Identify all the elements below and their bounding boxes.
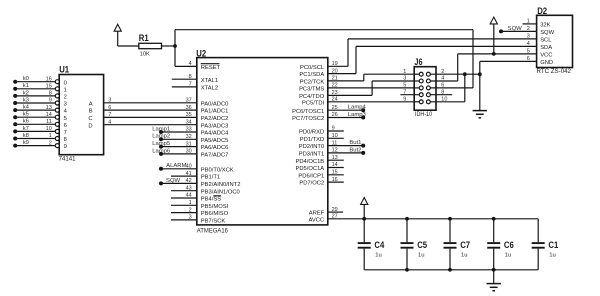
svg-text:PA5/ADC5: PA5/ADC5: [201, 138, 229, 144]
svg-text:21: 21: [332, 76, 338, 82]
svg-text:PB4/SS: PB4/SS: [201, 197, 221, 203]
svg-text:9: 9: [332, 126, 335, 132]
svg-text:31: 31: [186, 141, 192, 147]
svg-text:AREF: AREF: [309, 211, 325, 217]
svg-text:PB2/AIN0/INT2: PB2/AIN0/INT2: [201, 182, 241, 188]
svg-text:PA3/ADC3: PA3/ADC3: [201, 123, 229, 129]
svg-text:PA6/ADC6: PA6/ADC6: [201, 145, 229, 151]
svg-text:AVCC: AVCC: [309, 217, 325, 223]
svg-text:5: 5: [403, 83, 406, 89]
svg-text:14: 14: [46, 112, 52, 118]
svg-text:20: 20: [332, 68, 338, 74]
svg-text:Lamp1: Lamp1: [152, 126, 170, 132]
svg-text:PD2/INT0: PD2/INT0: [299, 144, 324, 150]
svg-text:43: 43: [186, 185, 192, 191]
svg-text:XTAL1: XTAL1: [201, 78, 218, 84]
svg-text:5: 5: [527, 48, 530, 54]
svg-text:ALARM: ALARM: [166, 163, 186, 169]
svg-text:D: D: [88, 123, 92, 129]
svg-text:35: 35: [186, 112, 192, 118]
svg-text:23: 23: [332, 90, 338, 96]
svg-text:12: 12: [332, 148, 338, 154]
svg-text:6: 6: [441, 83, 444, 89]
svg-text:PB1/T1: PB1/T1: [201, 175, 220, 181]
svg-text:4: 4: [108, 119, 111, 125]
svg-text:4: 4: [441, 76, 444, 82]
svg-text:A: A: [89, 101, 93, 107]
svg-text:10K: 10K: [140, 51, 150, 57]
svg-text:2: 2: [189, 207, 192, 213]
svg-text:C1: C1: [548, 239, 558, 250]
svg-text:13: 13: [46, 105, 52, 111]
svg-text:PC6/TOSC1: PC6/TOSC1: [292, 109, 324, 115]
svg-text:14: 14: [332, 162, 338, 168]
svg-text:2: 2: [64, 95, 67, 101]
svg-text:44: 44: [186, 193, 192, 199]
svg-text:k7: k7: [23, 126, 29, 132]
svg-text:C6: C6: [504, 239, 514, 250]
svg-text:34: 34: [186, 119, 192, 125]
svg-text:29: 29: [332, 207, 338, 213]
svg-text:1u: 1u: [505, 253, 512, 259]
svg-text:Lamp4: Lamp4: [348, 105, 367, 111]
svg-text:42: 42: [186, 178, 192, 184]
svg-text:B: B: [89, 109, 93, 115]
svg-text:3: 3: [108, 98, 111, 104]
svg-text:22: 22: [332, 83, 338, 89]
svg-text:RESET: RESET: [201, 65, 221, 71]
svg-text:41: 41: [186, 171, 192, 177]
svg-text:C5: C5: [417, 239, 427, 250]
svg-text:SCL: SCL: [540, 38, 552, 44]
svg-text:SQW: SQW: [508, 26, 523, 32]
svg-text:Lamp3: Lamp3: [348, 112, 367, 118]
svg-text:PD3/INT1: PD3/INT1: [299, 152, 324, 158]
svg-text:9: 9: [403, 97, 406, 103]
svg-text:30: 30: [186, 149, 192, 155]
svg-text:GND: GND: [540, 60, 553, 66]
svg-text:5: 5: [64, 116, 67, 122]
svg-text:PD4/OC1B: PD4/OC1B: [296, 159, 325, 165]
svg-text:1u: 1u: [461, 253, 468, 259]
svg-text:10: 10: [441, 97, 447, 103]
svg-text:1: 1: [49, 133, 52, 139]
svg-text:PC5/TDI: PC5/TDI: [302, 100, 325, 106]
svg-text:9: 9: [49, 98, 52, 104]
svg-text:PA0/ADC0: PA0/ADC0: [201, 101, 229, 107]
svg-text:9: 9: [64, 144, 67, 150]
svg-text:k8: k8: [23, 133, 30, 139]
svg-text:2: 2: [49, 140, 52, 146]
svg-text:k1: k1: [23, 83, 29, 89]
svg-text:PD5/OC1A: PD5/OC1A: [296, 166, 325, 172]
svg-text:6: 6: [64, 123, 67, 129]
svg-text:RTC ZS-042: RTC ZS-042: [537, 69, 572, 75]
svg-text:3: 3: [403, 76, 406, 82]
svg-text:J6: J6: [414, 56, 422, 67]
svg-text:15: 15: [332, 170, 338, 176]
svg-text:10: 10: [332, 133, 338, 139]
svg-text:PC1/SDA: PC1/SDA: [299, 72, 324, 78]
svg-text:But1: But1: [349, 140, 361, 146]
svg-text:4: 4: [189, 61, 192, 67]
svg-text:0: 0: [64, 80, 67, 86]
svg-text:k9: k9: [23, 140, 29, 146]
svg-text:15: 15: [46, 84, 52, 90]
svg-text:11: 11: [46, 119, 52, 125]
svg-text:PA7/ADC7: PA7/ADC7: [201, 153, 229, 159]
svg-text:1u: 1u: [375, 253, 382, 259]
svg-text:11: 11: [332, 140, 338, 146]
svg-text:D2: D2: [537, 5, 547, 16]
svg-text:R1: R1: [139, 32, 149, 43]
svg-text:Lamp2: Lamp2: [152, 134, 170, 140]
svg-text:C7: C7: [460, 239, 470, 250]
svg-text:k0: k0: [23, 76, 30, 82]
svg-text:k5: k5: [23, 112, 30, 118]
svg-text:1: 1: [189, 200, 192, 206]
svg-text:VCC: VCC: [540, 53, 552, 59]
svg-text:10: 10: [46, 126, 52, 132]
svg-text:PC3/TMS: PC3/TMS: [299, 87, 324, 93]
svg-text:7: 7: [403, 89, 406, 95]
svg-text:PA1/ADC1: PA1/ADC1: [201, 109, 229, 115]
svg-text:33: 33: [186, 127, 192, 133]
svg-text:PD0/RXD: PD0/RXD: [299, 130, 324, 136]
svg-text:PB5/MOSI: PB5/MOSI: [201, 204, 229, 210]
svg-text:6: 6: [527, 56, 530, 62]
svg-text:7: 7: [189, 82, 192, 88]
svg-text:25: 25: [332, 105, 338, 111]
svg-text:SQW: SQW: [540, 30, 554, 36]
svg-text:16: 16: [46, 76, 52, 82]
svg-text:26: 26: [332, 112, 338, 118]
svg-text:PB3/AIN1/OC0: PB3/AIN1/OC0: [201, 189, 240, 195]
svg-text:k4: k4: [23, 105, 30, 111]
svg-text:SQW: SQW: [166, 178, 181, 184]
svg-text:40: 40: [186, 164, 192, 170]
svg-text:PB0/T0/XCK: PB0/T0/XCK: [201, 167, 234, 173]
svg-text:19: 19: [332, 61, 338, 67]
svg-text:C4: C4: [374, 239, 385, 250]
svg-text:3: 3: [189, 215, 192, 221]
svg-text:16: 16: [332, 177, 338, 183]
svg-text:k6: k6: [23, 119, 30, 125]
svg-text:2: 2: [441, 69, 444, 75]
svg-text:PC0/SCL: PC0/SCL: [300, 65, 325, 71]
svg-text:PA2/ADC2: PA2/ADC2: [201, 116, 229, 122]
svg-text:13: 13: [332, 155, 338, 161]
svg-text:3: 3: [64, 102, 67, 108]
svg-text:XTAL2: XTAL2: [201, 86, 218, 92]
svg-text:27: 27: [332, 214, 338, 220]
svg-text:ATMEGA16: ATMEGA16: [197, 228, 229, 234]
svg-text:32: 32: [186, 134, 192, 140]
svg-text:3: 3: [527, 33, 530, 39]
svg-text:2: 2: [527, 26, 530, 32]
svg-text:1: 1: [527, 18, 530, 24]
svg-text:But2: But2: [349, 147, 361, 153]
svg-text:PB7/SCK: PB7/SCK: [201, 219, 226, 225]
svg-text:k2: k2: [23, 90, 29, 96]
svg-text:PD7/OC2: PD7/OC2: [299, 181, 324, 187]
svg-text:1: 1: [64, 87, 67, 93]
svg-text:SDA: SDA: [540, 45, 552, 51]
svg-text:37: 37: [186, 98, 192, 104]
svg-text:7: 7: [108, 112, 111, 118]
svg-text:U1: U1: [59, 64, 69, 75]
svg-text:PC7/TOSC2: PC7/TOSC2: [292, 116, 324, 122]
svg-text:C: C: [88, 116, 92, 122]
svg-text:PD1/TXD: PD1/TXD: [300, 137, 324, 143]
svg-text:U2: U2: [196, 48, 206, 59]
svg-text:Lamp5: Lamp5: [152, 141, 171, 147]
svg-text:1u: 1u: [418, 253, 425, 259]
svg-text:k3: k3: [23, 97, 30, 103]
svg-text:8: 8: [189, 74, 192, 80]
svg-text:4: 4: [527, 41, 530, 47]
svg-text:Lamp6: Lamp6: [152, 148, 171, 154]
svg-text:PD6/ICP1: PD6/ICP1: [298, 173, 324, 179]
svg-text:74141: 74141: [59, 156, 76, 162]
svg-text:PC4/TDO: PC4/TDO: [299, 94, 325, 100]
svg-text:24: 24: [332, 97, 338, 103]
svg-text:8: 8: [64, 137, 67, 143]
svg-text:32K: 32K: [540, 23, 550, 29]
svg-text:PA4/ADC4: PA4/ADC4: [201, 131, 229, 137]
svg-text:8: 8: [441, 89, 444, 95]
svg-text:IDH-10: IDH-10: [415, 112, 433, 118]
svg-text:PB6/MISO: PB6/MISO: [201, 211, 229, 217]
svg-text:1u: 1u: [549, 253, 556, 259]
svg-text:6: 6: [108, 105, 111, 111]
svg-text:8: 8: [49, 91, 52, 97]
svg-text:7: 7: [64, 130, 67, 136]
svg-text:PC2/TCK: PC2/TCK: [300, 80, 325, 86]
svg-text:1: 1: [403, 69, 406, 75]
svg-text:36: 36: [186, 105, 192, 111]
